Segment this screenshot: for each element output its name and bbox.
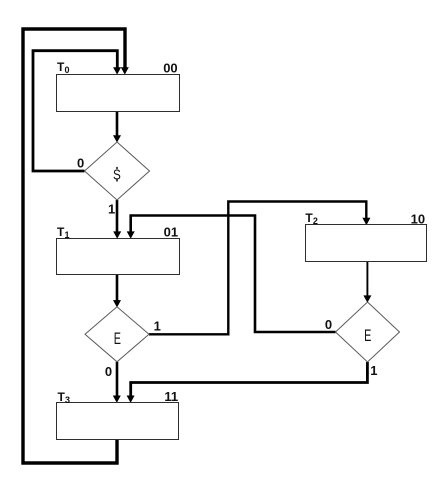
svg-text:10: 10 [411,212,425,227]
svg-text:0: 0 [105,364,112,379]
svg-text:1: 1 [65,230,70,240]
svg-text:1: 1 [154,319,161,334]
svg-text:0: 0 [65,65,70,75]
svg-text:0: 0 [325,317,332,332]
svg-text:3: 3 [65,395,70,405]
svg-text:0: 0 [77,155,84,170]
svg-text:01: 01 [164,225,178,240]
svg-text:00: 00 [163,60,177,75]
svg-text:2: 2 [313,216,318,226]
svg-text:1: 1 [108,202,115,217]
svg-text:1: 1 [370,363,377,378]
svg-text:11: 11 [164,389,178,404]
svg-text:E: E [364,326,371,345]
svg-text:E: E [114,329,121,348]
